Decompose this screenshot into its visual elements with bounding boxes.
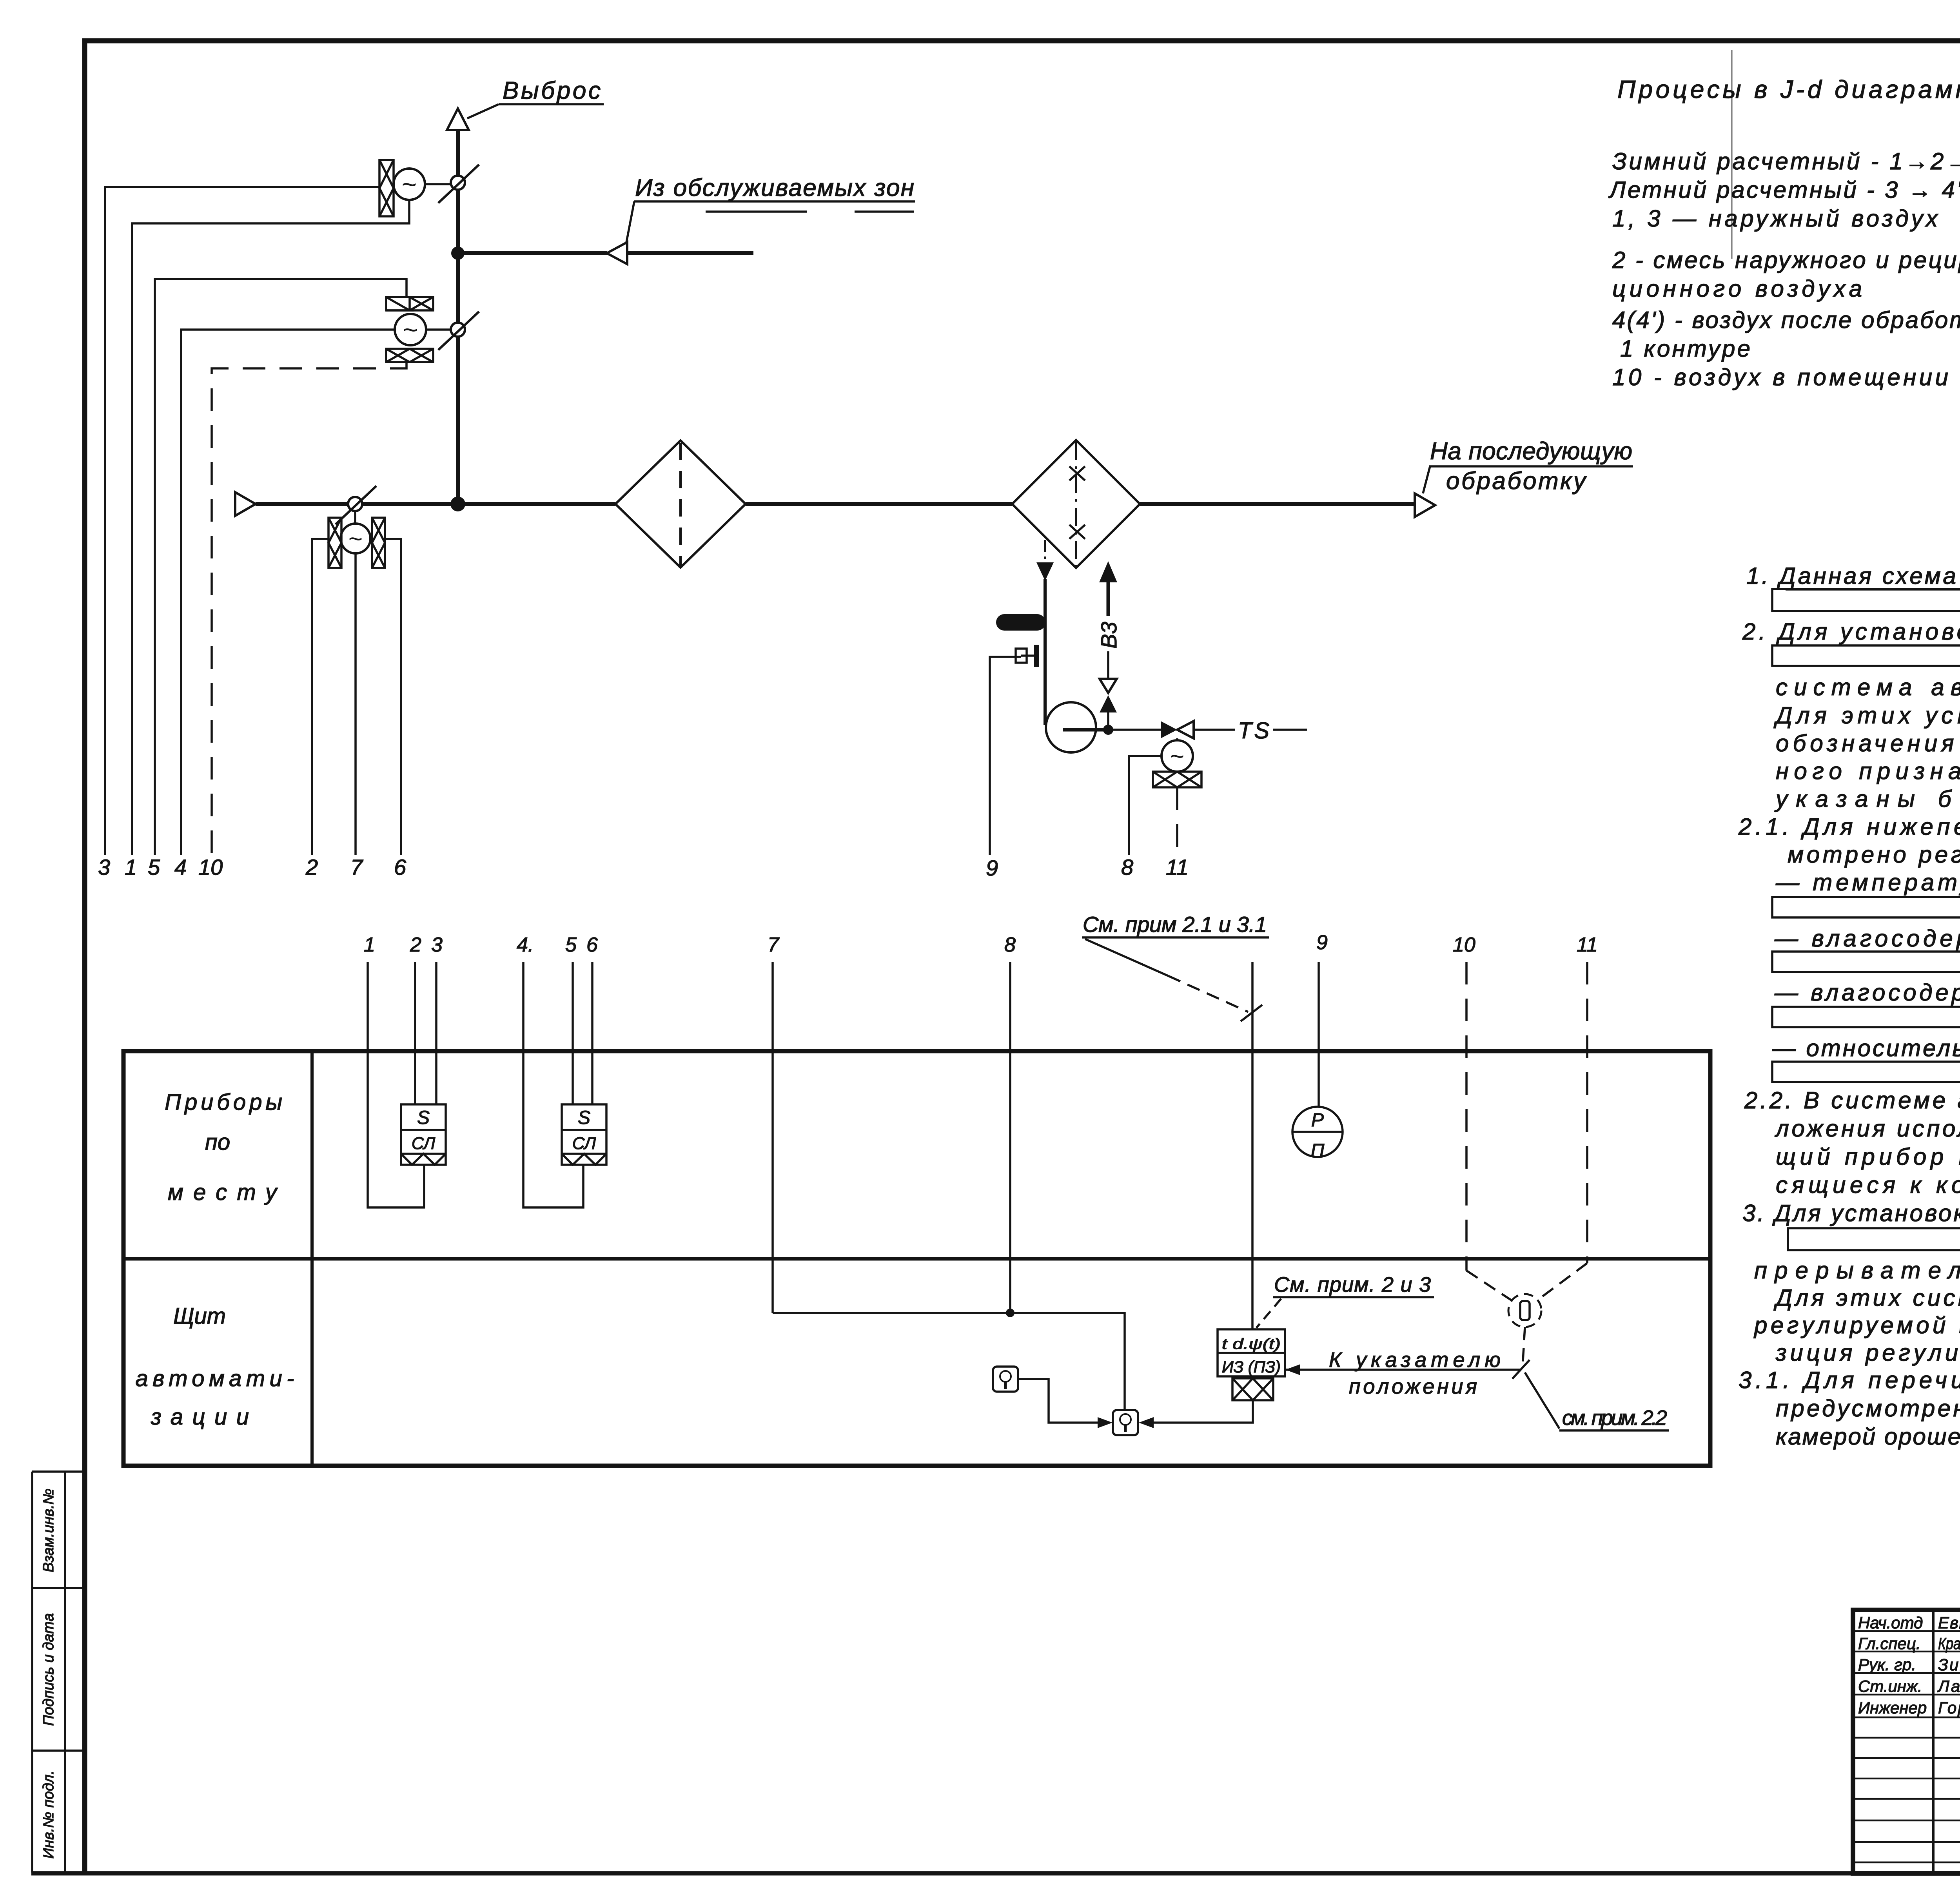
supply damper right [372, 518, 385, 568]
temperature sensor bulb [1004, 614, 1037, 631]
wire line 9 [1318, 962, 1320, 1108]
wire line 5 [572, 962, 574, 1104]
svg-text:Выброс: Выброс [503, 77, 601, 104]
svg-text:Подпись и дата: Подпись и дата [40, 1613, 57, 1726]
legend [1608, 148, 1960, 390]
main supply duct [256, 502, 615, 506]
row label Щит автоматизации [136, 1303, 294, 1430]
svg-text:3.1. Для перечисленных в пун: 3.1. Для перечисленных в пункте 3 устано… [1739, 1367, 1960, 1393]
svg-text:3. Для установок кондициониров: 3. Для установок кондиционирования [1742, 1200, 1960, 1226]
line labels set 2 [364, 931, 1598, 956]
control valve (bowtie) [1161, 721, 1177, 738]
svg-text:5: 5 [565, 934, 577, 956]
svg-text:8: 8 [1121, 855, 1133, 879]
exhaust duct (vertical) [456, 129, 460, 504]
damper D1 (exhaust) [379, 160, 394, 216]
recirc damper upper [386, 297, 433, 310]
svg-text:Ст.инж.: Ст.инж. [1858, 1677, 1922, 1695]
regulator P25.1.2 [1218, 1329, 1285, 1400]
solenoid actuator on pipe [1034, 645, 1039, 667]
svg-text:На последующую: На последующую [1430, 438, 1632, 465]
svg-text:См. прим 2.1 и 3.1: См. прим 2.1 и 3.1 [1083, 912, 1267, 937]
svg-text:ложения исполнительных механ: ложения исполнительных механизмов по вст… [1775, 1115, 1960, 1142]
svg-text:8: 8 [1004, 934, 1016, 956]
dashed diagonal from line 11 [1538, 1263, 1587, 1300]
TITLEBLOCK [1853, 1578, 1960, 1873]
wire line 7 [771, 962, 774, 1313]
svg-text:11: 11 [1166, 855, 1189, 879]
svg-text:2: 2 [410, 934, 421, 956]
WATER [990, 540, 1307, 855]
condensate pipe from chamber [1044, 540, 1046, 564]
valve motor [1176, 738, 1178, 741]
control valve on supply duct [348, 497, 362, 511]
branch tick [1512, 1360, 1530, 1379]
water feed arrow up [1099, 561, 1117, 582]
title block frame [1853, 1610, 1960, 1873]
wire riser 4 [181, 330, 395, 855]
svg-text:6: 6 [394, 855, 407, 879]
svg-text:4(4') - воздух после обработки: 4(4') - воздух после обработки в [1612, 307, 1960, 333]
svg-text:~: ~ [348, 526, 363, 553]
svg-text:2. Для установок кондициониров: 2. Для установок кондиционирования [1742, 618, 1960, 645]
svg-text:зиция регулирующего прибора: зиция регулирующего прибора указаны в ск… [1775, 1340, 1960, 1366]
row label Приборы по месту [165, 1089, 282, 1205]
svg-text:— влагосодержания за камерой: — влагосодержания за камерой орошения, у… [1774, 925, 1960, 952]
wire riser 5 [155, 279, 407, 855]
svg-text:S: S [417, 1108, 430, 1128]
control valve on recirc duct [451, 323, 465, 337]
svg-text:3: 3 [431, 934, 443, 956]
svg-text:2: 2 [305, 855, 318, 879]
svg-text:Для этих установок в условном: Для этих установок в условном изображени… [1773, 702, 1960, 729]
svg-text:положения: положения [1349, 1375, 1477, 1398]
position indicator (dashed circle) [1508, 1294, 1541, 1327]
wire riser 2 [312, 539, 328, 855]
svg-text:обозначения возможных регулиру: обозначения возможных регулируемых велич… [1776, 730, 1960, 756]
svg-text:— влагосодержания в обслужива: — влагосодержания в обслуживаемой зоне, … [1774, 979, 1960, 1006]
return duct [458, 251, 607, 255]
riser labels set 1 [98, 855, 1189, 880]
svg-text:В3: В3 [1096, 622, 1121, 649]
svg-text:Щит: Щит [173, 1303, 226, 1329]
svg-text:Инв.№ подл.: Инв.№ подл. [40, 1770, 57, 1858]
svg-text:Лазаренко: Лазаренко [1937, 1677, 1960, 1695]
control valve on exhaust duct [451, 176, 465, 190]
signal lamp 1 [993, 1367, 1018, 1392]
svg-text:1: 1 [125, 855, 137, 879]
supply damper left [328, 518, 341, 568]
spray chamber (diamond) [1012, 440, 1140, 568]
svg-text:Взам.инв.№: Взам.инв.№ [40, 1488, 57, 1572]
air filter (diamond) [615, 441, 746, 567]
svg-text:10: 10 [198, 855, 223, 879]
wire line 3 [435, 962, 437, 1104]
wire riser 9 [990, 657, 1021, 855]
valve actuator box [1153, 772, 1201, 787]
wire line 1 [368, 962, 424, 1207]
spray nozzle mark upper [1069, 466, 1085, 480]
LEFT-STRIP [32, 1472, 85, 1873]
wire line 8 [1009, 962, 1011, 1313]
svg-text:11: 11 [1577, 934, 1598, 956]
svg-text:10: 10 [1453, 934, 1475, 956]
wire riser 8 [1129, 756, 1161, 855]
svg-text:6: 6 [586, 934, 598, 956]
svg-text:ИЗ (ПЗ): ИЗ (ПЗ) [1222, 1358, 1281, 1376]
TABLE [123, 912, 1710, 1466]
svg-text:7: 7 [768, 934, 780, 956]
svg-text:1: 1 [364, 934, 375, 956]
local device S/СЛ no.2 [562, 1104, 606, 1165]
svg-text:— температуры воздуха за камер: — температуры воздуха за камерой орошени… [1775, 869, 1960, 896]
svg-text:щий прибор Р25.1.2 индикато: щий прибор Р25.1.2 индикатору. На схеме … [1776, 1144, 1960, 1170]
exhaust outlet arrow [447, 109, 469, 130]
svg-text:9: 9 [1316, 931, 1328, 954]
svg-text:4: 4 [174, 855, 187, 879]
svg-text:2 - смесь наружного и рециркул: 2 - смесь наружного и рециркуля- [1612, 247, 1960, 273]
svg-text:7: 7 [350, 855, 363, 879]
wire line 10 (dashed) [1465, 962, 1468, 1271]
svg-text:~: ~ [1170, 743, 1184, 770]
junction node (return/exhaust) [451, 247, 465, 260]
water feed pipe B3 [1107, 580, 1110, 616]
svg-text:См. прим. 2 и 3: См. прим. 2 и 3 [1274, 1273, 1431, 1296]
svg-text:Евтушенко: Евтушенко [1938, 1613, 1960, 1632]
JDCHART [1608, 72, 1960, 479]
feed valve pair [1100, 679, 1117, 693]
panel wire run [773, 1313, 1125, 1411]
wire line 4 [523, 962, 583, 1207]
fan M1 (exhaust fan) [394, 169, 425, 200]
svg-text:автомати-: автомати- [136, 1366, 294, 1391]
svg-text:система автоматизации 1 класса: система автоматизации 1 класса. [1776, 674, 1960, 700]
svg-text:СЛ: СЛ [412, 1134, 436, 1153]
svg-text:обработку: обработку [1446, 468, 1587, 495]
svg-text:ционного воздуха: ционного воздуха [1612, 276, 1862, 302]
lamp wire with arrow [1018, 1379, 1098, 1423]
svg-text:Р: Р [1311, 1110, 1324, 1131]
wire riser 10 (dashed) [212, 362, 407, 855]
dashed drop from indicator [1523, 1327, 1525, 1368]
wire riser 1 [132, 200, 409, 855]
svg-text:4.: 4. [517, 934, 534, 956]
pump outlet pipe [1063, 728, 1110, 732]
svg-text:Зимний расчетный - 1→2→4: Зимний расчетный - 1→2→4 [1612, 148, 1960, 174]
spray nozzle mark lower [1069, 525, 1085, 539]
svg-text:~: ~ [402, 170, 417, 199]
fan M2 (recirculation fan) [395, 314, 426, 345]
wire riser 7 [354, 553, 357, 855]
svg-text:~: ~ [403, 315, 418, 344]
NOTES [1738, 527, 1960, 1450]
svg-text:3: 3 [98, 855, 110, 879]
svg-text:камерой орошения. Позиция д: камерой орошения. Позиция датчика [1776, 1423, 1960, 1450]
wire riser 6 [385, 539, 401, 855]
wire riser 3 [105, 187, 379, 855]
local device S/СЛ no.1 [401, 1104, 446, 1165]
pump [1046, 702, 1096, 752]
junction node (panel) [1006, 1309, 1014, 1317]
svg-text:по: по [205, 1129, 230, 1155]
svg-text:S: S [578, 1108, 590, 1128]
signature rows [1858, 1613, 1960, 1717]
signal lamp 2 [1113, 1410, 1138, 1435]
junction node (main duct) [450, 497, 465, 511]
fan M3 (supply fan) [354, 511, 356, 524]
flow arrow down [1036, 562, 1054, 581]
outlet arrow [1415, 493, 1435, 517]
intake arrow [235, 492, 256, 516]
wire line 11 (dashed) [1586, 962, 1588, 1263]
svg-text:2.2. В системе автоматизации: 2.2. В системе автоматизации 1 класса пр… [1744, 1087, 1960, 1113]
regulator output wire with arrow [1154, 1400, 1253, 1423]
svg-text:Процесы в J-d диаграмме: Процесы в J-d диаграмме [1617, 75, 1960, 103]
dashed diagonal from line 10 [1466, 1271, 1512, 1300]
indicator link wire [1286, 1369, 1521, 1371]
svg-text:см. прим. 2.2: см. прим. 2.2 [1562, 1406, 1667, 1430]
svg-text:Красташевский: Красташевский [1938, 1634, 1960, 1653]
wire riser 11 (dashed) [1176, 787, 1178, 855]
svg-text:П: П [1311, 1140, 1325, 1161]
svg-text:Гл.спец.: Гл.спец. [1858, 1634, 1921, 1653]
svg-text:5: 5 [148, 855, 160, 879]
wire line 6 [591, 962, 593, 1104]
svg-text:— относительной влажности в о: — относительной влажности в обслуживаемо… [1772, 1035, 1960, 1061]
table frame [123, 1051, 1710, 1466]
wire line 2 [414, 962, 416, 1104]
svg-text:t d.ψ(t): t d.ψ(t) [1222, 1336, 1281, 1352]
svg-text:9: 9 [986, 856, 998, 880]
svg-text:Для этих систем в условном: Для этих систем в условном изображении р… [1773, 1285, 1960, 1311]
svg-text:СЛ: СЛ [572, 1134, 596, 1153]
pressure gauge Р/П [1292, 1107, 1343, 1157]
recirc damper lower [386, 349, 433, 362]
FRAME [82, 38, 87, 1875]
svg-text:Рук. гр.: Рук. гр. [1858, 1655, 1916, 1674]
svg-text:Нач.отд: Нач.отд [1858, 1613, 1923, 1632]
svg-text:ного признака , а также позици: ного признака , а также позиция регулиру… [1776, 758, 1960, 784]
sensor wire (see note 2.1,3.1) [1251, 962, 1254, 1329]
svg-text:предусмотрена регулирование: предусмотрена регулирование температуры … [1776, 1395, 1960, 1421]
svg-text:Инженер: Инженер [1858, 1699, 1927, 1717]
svg-text:2.1. Для нижеперечисленных уст: 2.1. Для нижеперечисленных установок кон… [1738, 814, 1960, 840]
junction node (pipes) [1103, 725, 1113, 735]
